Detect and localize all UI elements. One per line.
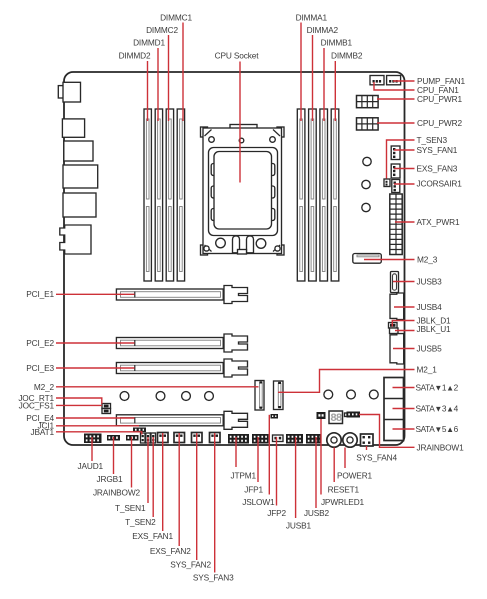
svg-text:JTPM1: JTPM1 bbox=[230, 471, 256, 481]
svg-text:DIMMB2: DIMMB2 bbox=[331, 51, 363, 61]
svg-text:SYS_FAN1: SYS_FAN1 bbox=[417, 145, 458, 155]
svg-text:PCI_E2: PCI_E2 bbox=[26, 338, 54, 348]
svg-text:POWER1: POWER1 bbox=[337, 471, 373, 481]
svg-text:DIMMD1: DIMMD1 bbox=[133, 38, 165, 48]
svg-text:SYS_FAN2: SYS_FAN2 bbox=[170, 560, 211, 570]
svg-text:DIMMA2: DIMMA2 bbox=[307, 25, 339, 35]
svg-text:JFP2: JFP2 bbox=[267, 508, 286, 518]
svg-text:JAUD1: JAUD1 bbox=[77, 461, 103, 471]
svg-text:DIMMC2: DIMMC2 bbox=[146, 25, 178, 35]
svg-text:SATA▼3▲4: SATA▼3▲4 bbox=[416, 404, 459, 414]
svg-text:T_SEN2: T_SEN2 bbox=[125, 517, 156, 527]
svg-text:M2_1: M2_1 bbox=[417, 365, 438, 375]
svg-text:JFP1: JFP1 bbox=[244, 485, 263, 495]
svg-text:M2_3: M2_3 bbox=[417, 255, 438, 265]
svg-text:EXS_FAN3: EXS_FAN3 bbox=[417, 164, 458, 174]
svg-text:JOC_FS1: JOC_FS1 bbox=[19, 400, 55, 410]
svg-text:SATA▼5▲6: SATA▼5▲6 bbox=[416, 424, 459, 434]
svg-text:JBLK_U1: JBLK_U1 bbox=[417, 324, 452, 334]
svg-text:PCI_E3: PCI_E3 bbox=[26, 363, 54, 373]
svg-text:PCI_E1: PCI_E1 bbox=[26, 289, 54, 299]
svg-text:T_SEN3: T_SEN3 bbox=[417, 135, 448, 145]
svg-text:JRAINBOW1: JRAINBOW1 bbox=[417, 443, 465, 453]
svg-text:JUSB4: JUSB4 bbox=[417, 302, 443, 312]
svg-text:JUSB1: JUSB1 bbox=[286, 521, 312, 531]
svg-text:SYS_FAN4: SYS_FAN4 bbox=[356, 453, 397, 463]
svg-text:EXS_FAN1: EXS_FAN1 bbox=[132, 531, 173, 541]
svg-text:JRAINBOW2: JRAINBOW2 bbox=[93, 488, 141, 498]
svg-text:88: 88 bbox=[330, 413, 343, 425]
svg-text:JUSB5: JUSB5 bbox=[417, 344, 443, 354]
svg-text:M2_2: M2_2 bbox=[34, 382, 55, 392]
svg-text:DIMMD2: DIMMD2 bbox=[119, 51, 151, 61]
svg-text:CPU_PWR1: CPU_PWR1 bbox=[417, 94, 462, 104]
svg-text:JSLOW1: JSLOW1 bbox=[242, 497, 275, 507]
svg-text:CPU Socket: CPU Socket bbox=[215, 51, 260, 61]
svg-text:CPU_PWR2: CPU_PWR2 bbox=[417, 118, 462, 128]
svg-text:T_SEN1: T_SEN1 bbox=[115, 503, 146, 513]
svg-text:DIMMB1: DIMMB1 bbox=[321, 38, 353, 48]
svg-text:JUSB3: JUSB3 bbox=[417, 277, 443, 287]
svg-text:DIMMA1: DIMMA1 bbox=[296, 13, 328, 23]
svg-text:JBAT1: JBAT1 bbox=[30, 427, 54, 437]
svg-text:JUSB2: JUSB2 bbox=[304, 508, 330, 518]
svg-text:JPWRLED1: JPWRLED1 bbox=[321, 497, 365, 507]
svg-text:EXS_FAN2: EXS_FAN2 bbox=[150, 546, 191, 556]
svg-text:SATA▼1▲2: SATA▼1▲2 bbox=[416, 383, 459, 393]
svg-text:JRGB1: JRGB1 bbox=[97, 474, 124, 484]
svg-text:RESET1: RESET1 bbox=[328, 485, 360, 495]
svg-text:DIMMC1: DIMMC1 bbox=[160, 13, 192, 23]
svg-text:JCORSAIR1: JCORSAIR1 bbox=[417, 179, 463, 189]
svg-text:ATX_PWR1: ATX_PWR1 bbox=[417, 217, 460, 227]
svg-text:SYS_FAN3: SYS_FAN3 bbox=[193, 573, 234, 583]
